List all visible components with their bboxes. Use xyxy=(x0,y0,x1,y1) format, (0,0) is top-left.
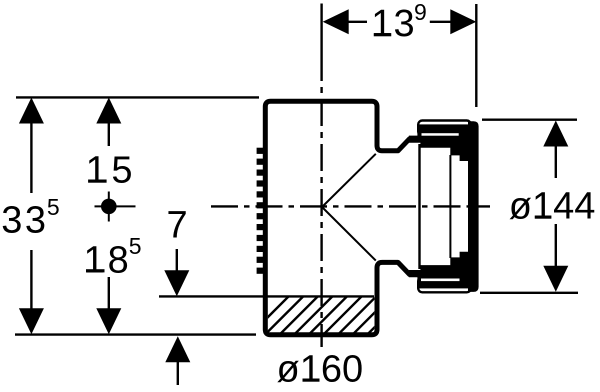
svg-text:7: 7 xyxy=(167,204,188,246)
socket cap outline top xyxy=(418,121,471,136)
hatch top boundary and 7-dim extension line xyxy=(159,295,374,297)
dimension 15 / 18.5 lines and arrows xyxy=(108,123,110,146)
socket bottom band lower xyxy=(409,252,474,277)
svg-text:1: 1 xyxy=(371,3,392,45)
vertical centerline xyxy=(320,4,322,82)
socket right bar xyxy=(468,121,479,292)
white sliver bottom xyxy=(421,279,460,282)
crosshair with dot xyxy=(95,205,136,207)
socket inner wall left xyxy=(418,144,420,269)
dimension 33.5 lines and arrows xyxy=(30,123,32,193)
body outline of fitting xyxy=(265,101,416,334)
svg-text:5: 5 xyxy=(111,150,132,192)
socket cap outline bottom xyxy=(418,277,471,292)
dimension 13.9 lines and arrows xyxy=(348,21,367,23)
socket inner wall right xyxy=(449,155,451,258)
extension lines xyxy=(16,96,259,98)
svg-text:9: 9 xyxy=(414,0,427,25)
svg-text:ø160: ø160 xyxy=(277,349,364,391)
svg-text:3: 3 xyxy=(394,3,415,45)
dimension dia144 lines and arrows xyxy=(555,146,557,178)
socket bottom band upper xyxy=(417,276,474,288)
svg-text:ø144: ø144 xyxy=(509,186,596,228)
white sliver top xyxy=(422,133,459,136)
svg-text:1: 1 xyxy=(86,150,107,192)
dimension 7 lines and arrows xyxy=(176,249,178,271)
svg-text:8: 8 xyxy=(108,239,129,281)
horizontal centerline xyxy=(211,205,490,207)
svg-text:3: 3 xyxy=(25,199,46,241)
socket top band upper xyxy=(417,124,474,136)
socket top band lower xyxy=(409,136,474,161)
svg-text:5: 5 xyxy=(129,233,142,259)
svg-text:5: 5 xyxy=(47,194,60,220)
ribs on left edge xyxy=(257,148,263,274)
svg-text:1: 1 xyxy=(84,239,105,281)
diagonal thin lines from center xyxy=(322,154,376,207)
svg-text:3: 3 xyxy=(1,199,22,241)
